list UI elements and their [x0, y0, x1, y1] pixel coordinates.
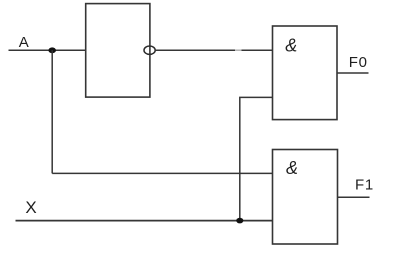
and-gate U3: [273, 150, 338, 245]
junction: [236, 218, 243, 224]
inverter bubble: [144, 46, 155, 54]
junction: [48, 47, 56, 53]
wire: [51, 50, 53, 173]
svg-text:F1: F1: [355, 176, 374, 193]
wire: [9, 49, 86, 51]
wire: [338, 196, 370, 198]
wire: [337, 72, 369, 74]
svg-text:&: &: [286, 158, 298, 178]
wire: [16, 220, 273, 222]
and-gate U2: [273, 26, 338, 120]
svg-text:&: &: [285, 35, 297, 55]
svg-text:A: A: [19, 34, 29, 51]
svg-text:F0: F0: [349, 54, 368, 71]
inverter U1: [86, 4, 150, 98]
wire: [52, 172, 272, 174]
svg-text:X: X: [25, 198, 36, 217]
wire: [240, 97, 273, 220]
wire: [155, 49, 235, 51]
